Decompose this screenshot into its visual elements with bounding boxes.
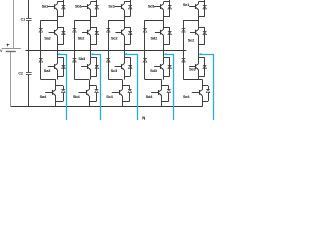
svg-text:Sd1: Sd1 — [148, 3, 156, 8]
svg-text:Sd2: Sd2 — [151, 35, 159, 40]
svg-text:Sc3: Sc3 — [111, 68, 118, 73]
svg-text:Se4: Se4 — [183, 94, 190, 99]
svg-text:Sa1: Sa1 — [42, 3, 49, 8]
svg-text:Sc2: Sc2 — [111, 35, 118, 40]
svg-text:Sd4: Sd4 — [146, 94, 154, 99]
svg-text:Sb4: Sb4 — [73, 94, 81, 99]
svg-text:Sa2: Sa2 — [44, 35, 51, 40]
svg-text:Sa4: Sa4 — [40, 94, 47, 99]
svg-text:Se3: Se3 — [189, 67, 196, 72]
svg-text:Sc1: Sc1 — [108, 3, 115, 8]
svg-text:Sb3: Sb3 — [78, 56, 86, 61]
svg-text:C2: C2 — [18, 71, 22, 75]
svg-text:Sb2: Sb2 — [78, 35, 86, 40]
svg-text:Se1: Se1 — [183, 2, 190, 7]
svg-text:C1: C1 — [21, 17, 25, 21]
svg-text:Sd3: Sd3 — [150, 68, 158, 73]
svg-text:Se2: Se2 — [188, 38, 195, 43]
svg-text:Sc4: Sc4 — [106, 94, 113, 99]
svg-text:Sa3: Sa3 — [44, 68, 51, 73]
svg-text:Sb1: Sb1 — [75, 3, 83, 8]
svg-text:N: N — [142, 115, 145, 120]
